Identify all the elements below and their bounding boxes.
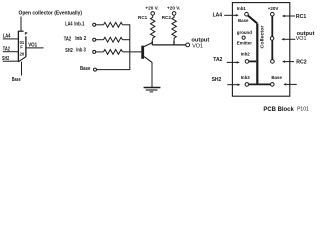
terminal +20V RC2 [172, 12, 176, 16]
svg-text:Base: Base [238, 18, 249, 23]
label LA4 (box left) [213, 13, 223, 19]
terminal Base (middle) [94, 68, 97, 71]
terminal +20V RC1 [151, 12, 155, 16]
connector P left bar [17, 31, 19, 62]
svg-text:TA2: TA2 [64, 36, 72, 42]
svg-text:RC1: RC1 [296, 14, 306, 20]
wire Inb1 to collector bar (diagonal) [248, 16, 257, 24]
label Inb1 (in box) [237, 6, 247, 11]
ground [144, 87, 161, 89]
svg-text:P: P [25, 31, 28, 36]
collector bar (in box) [256, 24, 258, 85]
PCB block box [232, 3, 289, 97]
svg-text:Inb3: Inb3 [241, 75, 251, 80]
label LA4 (middle row 1) [65, 22, 72, 28]
terminal RC2 (in box) [271, 60, 275, 64]
svg-text:Base: Base [80, 66, 91, 72]
wire R2 to bus [123, 39, 130, 41]
svg-text:Inb1: Inb1 [237, 6, 247, 11]
label Inb.1 [74, 22, 84, 28]
wire R1 to bus [123, 24, 130, 26]
terminal Inb 3 [93, 50, 96, 53]
arrow TA2 into box [227, 61, 237, 63]
label Base (middle) [80, 66, 91, 72]
terminal output VO1 (in box) [270, 37, 274, 41]
terminal Inb2 [245, 60, 249, 64]
svg-text:LA4: LA4 [213, 13, 223, 19]
label output (middle) [191, 37, 209, 43]
label +20V (in box) [268, 6, 279, 11]
connector P top edge [18, 30, 24, 32]
transistor Q1 emitter lead [144, 57, 152, 63]
svg-text:Open collector (Eventually): Open collector (Eventually) [19, 11, 83, 17]
svg-text:RC1: RC1 [138, 15, 148, 20]
label P101 [297, 107, 309, 113]
terminal Base (in box) [271, 83, 275, 87]
arrow LA4 into box [224, 14, 236, 16]
label VO1 (middle) [192, 43, 203, 49]
label RC2 [162, 15, 172, 20]
svg-text:PCB Block: PCB Block [263, 107, 294, 113]
wire Inb3 to Base terminal [249, 83, 271, 85]
svg-text:Emitter: Emitter [237, 40, 252, 45]
terminal Inb 2 [93, 38, 96, 41]
svg-text:RC2: RC2 [296, 59, 306, 65]
label Base (left) [12, 77, 21, 83]
svg-text:+20V: +20V [268, 6, 279, 11]
svg-text:Inb 2: Inb 2 [75, 36, 86, 42]
pin label 01 [20, 40, 25, 45]
terminal Inb1 [245, 12, 249, 16]
wire Inb 2 to R [96, 39, 104, 41]
label SH2 (left) [2, 56, 9, 62]
wire emitter to ground [151, 62, 153, 87]
label SH2 (box left) [212, 77, 222, 83]
connector P bottom diagonal [18, 57, 26, 62]
transistor Q1 base bar [141, 46, 144, 59]
wire Inb2 to collector bar [249, 60, 256, 62]
svg-text:VO1: VO1 [296, 36, 307, 42]
wire Inb.1 to R [96, 24, 104, 26]
label Base (in box, top) [238, 18, 249, 23]
resistor row 2 [104, 37, 123, 42]
label PCB Block [263, 107, 294, 113]
arrow SH2 into box [227, 84, 238, 86]
label Inb3 (in box) [241, 75, 251, 80]
svg-text:Collector: Collector [260, 25, 265, 48]
wire SH2 to connector [3, 60, 19, 62]
wire R3 to transistor base [123, 51, 142, 53]
pin label F [20, 44, 23, 49]
label Inb 2 [75, 36, 86, 42]
resistor row 1 [104, 22, 123, 27]
resistor RC2 [172, 15, 176, 40]
svg-text:Base: Base [271, 75, 282, 80]
wire +20V down to RC2 terminal [271, 16, 273, 60]
label TA2 (middle row 2) [64, 36, 72, 42]
wire TA2 to connector [3, 51, 19, 53]
svg-text:SH2: SH2 [65, 48, 73, 54]
wire from title to connector P [20, 17, 22, 32]
svg-text:LA4: LA4 [65, 22, 72, 28]
svg-text:RC2: RC2 [162, 15, 172, 20]
label TA2 (box left) [213, 57, 222, 63]
wire Inb 3 to R [96, 51, 104, 53]
label Emitter (in box) [237, 40, 252, 45]
label LA4 (left) [3, 34, 11, 40]
label Collector (vertical) [260, 25, 265, 48]
svg-text:20: 20 [20, 52, 25, 57]
arrow Base into box (right) [287, 83, 297, 85]
label VO1 (left block output) [28, 42, 37, 48]
svg-text:TA2: TA2 [213, 57, 222, 63]
arrow output into box [284, 38, 295, 40]
label Inb 3 [76, 48, 86, 54]
collector rail [152, 40, 186, 45]
svg-text:P101: P101 [297, 107, 309, 113]
transistor Q1 collector lead [144, 43, 152, 47]
svg-text:ground: ground [237, 30, 252, 35]
input bus [129, 24, 131, 69]
resistor row 3 [104, 50, 123, 55]
connector P right bar [25, 36, 27, 57]
svg-text:Inb.1: Inb.1 [74, 22, 84, 28]
label output VO1 (box right) [297, 31, 315, 37]
wire VO1 [27, 47, 44, 49]
label RC1 (box right) [296, 14, 306, 20]
terminal ground [242, 36, 245, 39]
svg-text:Inb 3: Inb 3 [76, 48, 86, 54]
label Inb2 (in box) [241, 52, 251, 57]
svg-text:VO1: VO1 [192, 43, 203, 49]
label ground (in box) [237, 30, 252, 35]
arrow RC2 into box [285, 61, 294, 63]
label P [25, 31, 28, 36]
svg-text:+20 V.: +20 V. [167, 6, 180, 11]
svg-text:+20 V.: +20 V. [145, 6, 158, 11]
label +20 V. (RC1) [145, 6, 158, 11]
label TA2 (left) [3, 46, 10, 52]
pin label 20 [20, 52, 25, 57]
arrow RC1 into box [285, 15, 295, 17]
svg-text:VO1: VO1 [28, 42, 37, 48]
resistor RC1 [151, 15, 155, 40]
terminal Inb3 [245, 83, 249, 87]
title Open collector (Eventually) [19, 11, 83, 17]
label Base (in box, bottom right) [271, 75, 282, 80]
label RC2 (box right) [296, 59, 306, 65]
svg-text:Base: Base [12, 77, 21, 83]
label +20 V. (RC2) [167, 6, 180, 11]
terminal +20V [271, 12, 275, 16]
wire Base to bus [97, 69, 131, 71]
wire connector to Base [21, 62, 23, 76]
wire LA4 to connector [3, 38, 19, 40]
label SH2 (middle row 3) [65, 48, 73, 54]
label RC1 [138, 15, 148, 20]
svg-text:F: F [20, 44, 23, 49]
svg-text:Inb2: Inb2 [241, 52, 251, 57]
svg-text:SH2: SH2 [212, 77, 222, 83]
terminal output VO1 [186, 43, 190, 47]
terminal Inb.1 [93, 23, 96, 26]
